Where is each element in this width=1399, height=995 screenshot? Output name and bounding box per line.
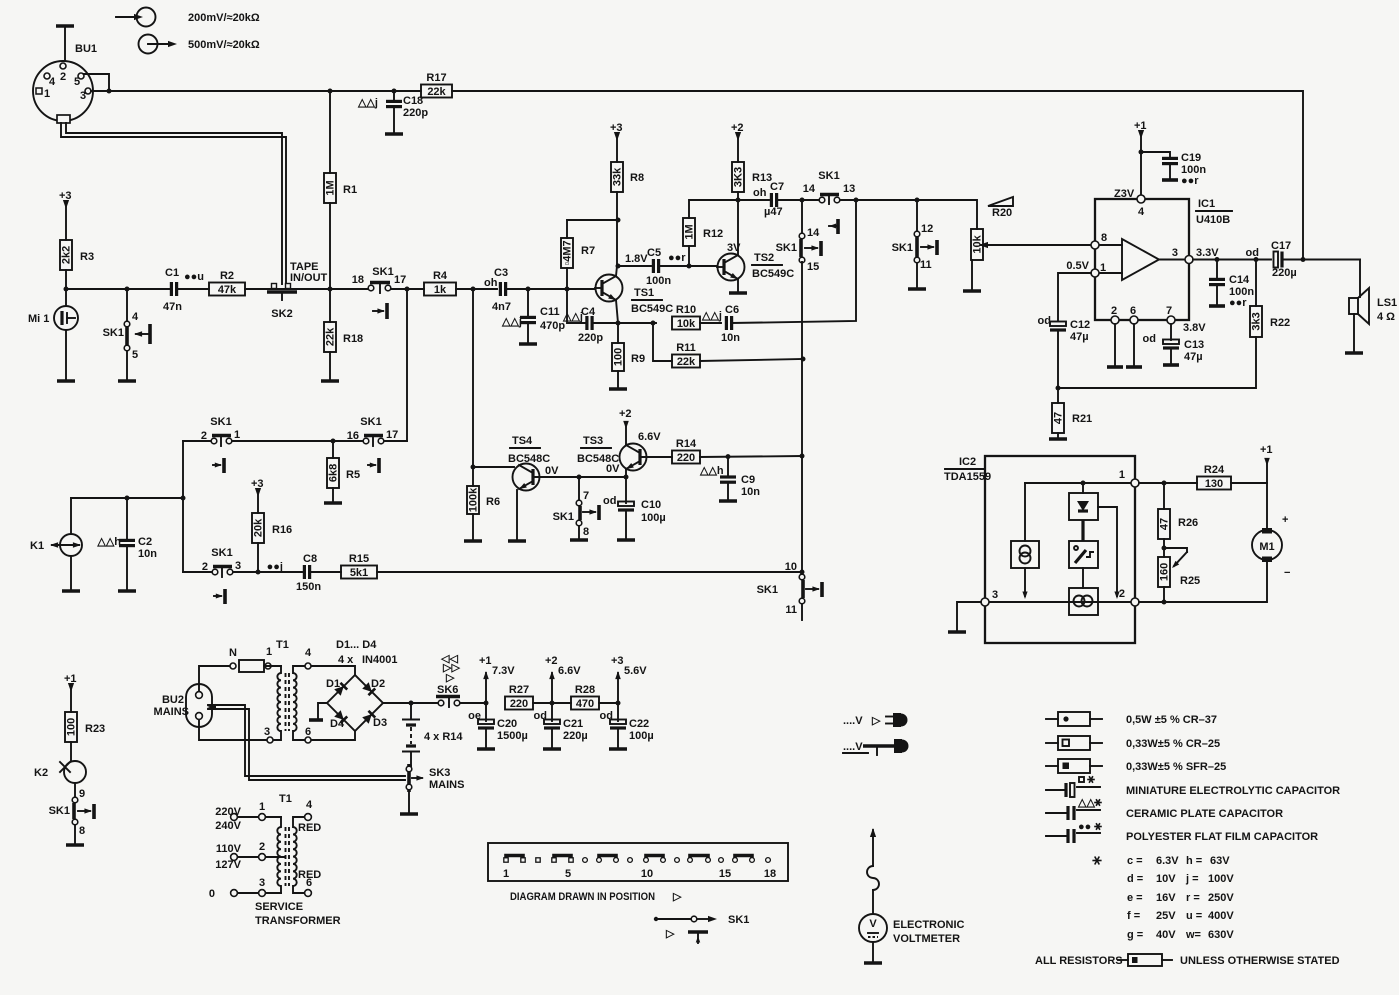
svg-text:220p: 220p [578, 332, 603, 344]
svg-text:17: 17 [386, 429, 398, 441]
resistor R1 [329, 91, 331, 173]
svg-text:220: 220 [510, 698, 528, 710]
switch SK3 MAINS [400, 764, 464, 814]
svg-text:C13: C13 [1184, 339, 1204, 351]
wire K1 row [71, 497, 183, 499]
svg-text:0: 0 [209, 888, 215, 900]
svg-text:R11: R11 [676, 342, 696, 354]
wire pin1 to R24 [1139, 482, 1197, 484]
wire SK1-2/3 row [183, 571, 212, 573]
svg-text:1k: 1k [434, 284, 447, 296]
wire BU1 pin5 jog [84, 74, 109, 91]
svg-text:●●: ●● [1078, 821, 1091, 833]
mains double line to SK3 [208, 705, 405, 776]
svg-text:R9: R9 [631, 353, 645, 365]
switch SK1 18-17 [352, 266, 407, 319]
svg-text:3: 3 [259, 877, 265, 889]
svg-text:C3: C3 [494, 267, 508, 279]
svg-text:14: 14 [807, 227, 820, 239]
svg-text:47µ: 47µ [1184, 351, 1203, 363]
svg-text:22k: 22k [325, 327, 337, 346]
svg-text:△△h: △△h [96, 536, 121, 548]
svg-text:4: 4 [1138, 206, 1145, 218]
svg-text:R20: R20 [992, 207, 1012, 219]
legend miniature electrolytic capacitor [1046, 776, 1340, 797]
svg-text:SK1: SK1 [892, 242, 913, 254]
svg-text:SK1: SK1 [553, 511, 574, 523]
svg-text:SK1: SK1 [103, 327, 124, 339]
svg-text:R28: R28 [575, 684, 595, 696]
svg-text:3.3V: 3.3V [1196, 247, 1219, 259]
svg-text:SK1: SK1 [728, 914, 749, 926]
svg-text:△△j: △△j [501, 316, 522, 328]
svg-text:LS1: LS1 [1377, 297, 1397, 309]
potentiometer R25 [1163, 539, 1165, 557]
resistor R27 [505, 697, 533, 710]
battery 4xR14 [402, 703, 463, 766]
svg-text:127V: 127V [215, 859, 241, 871]
svg-text:+2: +2 [545, 655, 558, 667]
svg-text:D4: D4 [330, 718, 345, 730]
svg-text:1.8V: 1.8V [625, 253, 648, 265]
svg-text:470: 470 [576, 698, 594, 710]
microphone Mi1 [28, 289, 78, 381]
wire to SK1 18-17 [330, 288, 368, 290]
transistor TS1 [595, 266, 673, 323]
speaker LS1 [1345, 260, 1397, 354]
svg-text:C2: C2 [138, 536, 152, 548]
svg-text:TS3: TS3 [583, 435, 603, 447]
svg-text:r =: r = [1186, 892, 1200, 904]
wire T1 pin6 to bridge [312, 731, 355, 740]
IC2 pin3 ground [957, 602, 981, 631]
svg-text:200mV/≈20kΩ: 200mV/≈20kΩ [188, 12, 260, 24]
svg-text:16V: 16V [1156, 892, 1176, 904]
svg-text:100: 100 [613, 348, 625, 366]
switch position box [488, 843, 788, 881]
IC2 pin 3 [981, 598, 989, 606]
svg-text:47µ: 47µ [1070, 331, 1089, 343]
svg-text:100V: 100V [1208, 873, 1234, 885]
svg-text:....V: ....V [843, 715, 863, 727]
svg-text:+2: +2 [619, 408, 632, 420]
svg-text:△△h: △△h [699, 465, 724, 477]
svg-text:+1: +1 [479, 655, 492, 667]
taper wedge symbol [988, 197, 1013, 206]
resistor R13 [732, 162, 744, 192]
svg-text:RED: RED [298, 822, 321, 834]
svg-text:0,33W±5 % CR–25: 0,33W±5 % CR–25 [1126, 738, 1220, 750]
svg-text:160: 160 [1159, 563, 1171, 581]
resistor R17 [421, 85, 452, 98]
svg-text:R16: R16 [272, 524, 292, 536]
wire top bus to right edge [452, 91, 1303, 260]
svg-text:5: 5 [132, 349, 138, 361]
svg-text:BC548C: BC548C [508, 453, 550, 465]
resistor R10 [672, 317, 700, 330]
svg-text:220µ: 220µ [563, 730, 588, 742]
svg-text:R4: R4 [433, 270, 448, 282]
svg-text:TS1: TS1 [634, 287, 654, 299]
resistor R6 [471, 465, 476, 470]
connector BU1 [33, 43, 97, 123]
resistor R3 [60, 240, 72, 270]
capacitor C7 [738, 199, 769, 201]
svg-text:IN/OUT: IN/OUT [290, 272, 328, 284]
svg-text:4: 4 [305, 647, 312, 659]
svg-text:1: 1 [266, 646, 272, 658]
svg-text:1: 1 [1119, 469, 1125, 481]
svg-text:1: 1 [44, 88, 50, 100]
svg-text:47k: 47k [218, 284, 237, 296]
svg-text:C5: C5 [647, 247, 661, 259]
svg-text:+1: +1 [1260, 444, 1273, 456]
svg-text:TRANSFORMER: TRANSFORMER [255, 915, 341, 927]
legend arrow 500mV [139, 35, 260, 54]
switch SK1 12-11 [892, 200, 937, 289]
svg-text:220p: 220p [403, 107, 428, 119]
svg-text:▷: ▷ [672, 891, 682, 903]
svg-text:c =: c = [1127, 855, 1143, 867]
resistor R26 [1163, 483, 1165, 509]
svg-text:SK1: SK1 [49, 805, 70, 817]
svg-text:6.6V: 6.6V [638, 431, 661, 443]
svg-text:11: 11 [785, 604, 797, 616]
svg-text:4n7: 4n7 [492, 301, 511, 313]
svg-text:SK1: SK1 [818, 170, 839, 182]
legend ceramic plate capacitor [1046, 797, 1283, 820]
motor M1 [1139, 483, 1290, 602]
svg-text:10n: 10n [721, 332, 740, 344]
wire T1 pin4 to bridge [312, 666, 355, 675]
svg-text:3: 3 [1172, 247, 1178, 259]
legend resistor 0.33W CR-25 [1046, 736, 1220, 750]
connector K1 [30, 498, 82, 591]
svg-text:13: 13 [843, 183, 855, 195]
svg-text:C18: C18 [403, 95, 423, 107]
svg-text:oh: oh [753, 187, 767, 199]
capacitor C18 [357, 91, 428, 134]
wire SK1-15 down long vertical [801, 262, 803, 572]
wire R7 top to TS1 collector line [567, 219, 618, 221]
svg-text:16: 16 [347, 430, 359, 442]
resistor R4 [424, 283, 456, 296]
svg-text:15: 15 [807, 261, 819, 273]
capacitor C14 [1216, 260, 1218, 280]
svg-text:2: 2 [1119, 588, 1125, 600]
switch SK1 2-1 [201, 416, 240, 473]
svg-text:4 x R14: 4 x R14 [424, 731, 463, 743]
svg-text:10n: 10n [741, 486, 760, 498]
svg-text:240V: 240V [215, 820, 241, 832]
svg-text:4: 4 [306, 799, 313, 811]
svg-text:0V: 0V [606, 463, 620, 475]
svg-text:▷: ▷ [665, 928, 675, 940]
svg-text:2: 2 [1111, 305, 1117, 317]
resistor R23 [65, 712, 77, 742]
svg-text:18: 18 [764, 868, 776, 880]
capacitor C19 [1141, 152, 1170, 157]
resistor R14 [672, 451, 700, 464]
svg-text:11: 11 [920, 259, 932, 271]
svg-text:R23: R23 [85, 723, 105, 735]
svg-text:DIAGRAM DRAWN IN POSITION: DIAGRAM DRAWN IN POSITION [510, 891, 655, 903]
switch SK1 2-3 [202, 547, 241, 604]
wire long row to SK1 10 [377, 571, 802, 573]
IC1 pin 8 [1091, 241, 1099, 249]
svg-text:12: 12 [921, 223, 933, 235]
svg-text:f =: f = [1127, 910, 1140, 922]
svg-text:SK2: SK2 [271, 308, 292, 320]
svg-text:RED: RED [298, 869, 321, 881]
svg-text:●●r: ●●r [668, 252, 686, 264]
transformer T1 (mains) [199, 639, 312, 743]
svg-text:C4: C4 [581, 306, 596, 318]
chassis bar above BU1 [56, 24, 74, 28]
svg-text:C14: C14 [1229, 274, 1250, 286]
svg-text:T1: T1 [279, 793, 292, 805]
IC2 TDA1559 box [944, 456, 1135, 643]
svg-text:u =: u = [1186, 910, 1202, 922]
wire top bus from BU1 pin3 [91, 90, 421, 92]
svg-text:R6: R6 [486, 496, 500, 508]
resistor R12 [688, 246, 690, 266]
switch SK1 14-15 (vertical) [776, 200, 821, 273]
svg-text:7: 7 [1166, 305, 1172, 317]
svg-text:BU2: BU2 [162, 694, 184, 706]
bridge minus ground [318, 703, 327, 719]
resistor R22 [1255, 260, 1257, 307]
svg-text:10n: 10n [138, 548, 157, 560]
svg-text:3V: 3V [727, 242, 741, 254]
resistor R9 [616, 321, 621, 326]
svg-text:0V: 0V [545, 465, 559, 477]
svg-text:3: 3 [992, 589, 998, 601]
svg-text:3.8V: 3.8V [1183, 322, 1206, 334]
svg-text:100n: 100n [646, 275, 671, 287]
switch SK1 14-13 (top) [803, 170, 856, 234]
wire feedback bottom [1058, 337, 1256, 388]
resistor R21 [1057, 388, 1059, 403]
svg-text:N: N [229, 647, 237, 659]
svg-text:6: 6 [1130, 305, 1136, 317]
svg-text:●●r: ●●r [1229, 297, 1247, 309]
svg-text:63V: 63V [1210, 855, 1230, 867]
resistor R8 [611, 162, 623, 192]
fuse N [230, 663, 236, 669]
svg-text:e =: e = [1127, 892, 1143, 904]
svg-text:100k: 100k [468, 487, 480, 512]
svg-text:3k3: 3k3 [1251, 312, 1263, 330]
svg-text:▷: ▷ [871, 715, 881, 727]
svg-text:●●u: ●●u [184, 271, 204, 283]
svg-text:●●j: ●●j [267, 561, 283, 573]
svg-text:C1: C1 [165, 267, 179, 279]
svg-text:R2: R2 [220, 270, 234, 282]
svg-text:8: 8 [583, 526, 589, 538]
legend arrow 200mV [116, 8, 260, 27]
svg-text:d =: d = [1127, 873, 1143, 885]
svg-text:10k: 10k [677, 318, 696, 330]
switch SK1 9-8 [49, 783, 94, 845]
IC1 pin 6 + ground [1130, 316, 1138, 324]
svg-text:22k: 22k [427, 86, 446, 98]
svg-text:SK3: SK3 [429, 767, 450, 779]
wire bridge plus to SK6 [383, 702, 438, 704]
svg-text:4: 4 [132, 311, 139, 323]
svg-text:BC549C: BC549C [631, 303, 673, 315]
IC1 pin 3 [1185, 256, 1193, 264]
svg-text:od: od [1246, 247, 1259, 259]
IC1 pin 2 + ground [1111, 316, 1119, 324]
svg-text:MINIATURE ELECTROLYTIC CAPAC: MINIATURE ELECTROLYTIC CAPACITOR [1126, 785, 1340, 797]
svg-text:SK1: SK1 [360, 416, 381, 428]
resistor R18 [329, 289, 331, 322]
wire SK1-17 to R4 [391, 288, 424, 290]
svg-text:0,5W ±5 % CR–37: 0,5W ±5 % CR–37 [1126, 714, 1217, 726]
svg-text:SK1: SK1 [776, 242, 797, 254]
svg-text:△△j: △△j [357, 97, 378, 109]
wire junction down to SK1 16-17 [406, 289, 408, 441]
svg-text:h =: h = [1186, 855, 1202, 867]
IC2 pin 1 [1131, 479, 1139, 487]
transistor TS2 [717, 200, 794, 293]
svg-text:9: 9 [79, 788, 85, 800]
svg-text:C11: C11 [540, 306, 560, 318]
svg-text:R24: R24 [1204, 464, 1225, 476]
svg-text:14: 14 [803, 183, 816, 195]
resistor R16 [252, 513, 264, 543]
switch SK6 [436, 653, 486, 707]
svg-text:K1: K1 [30, 540, 44, 552]
svg-text:6: 6 [305, 726, 311, 738]
tape head connector SK2 / TAPE IN-OUT [267, 261, 328, 320]
legend all resistors note [1035, 954, 1340, 967]
svg-text:8: 8 [79, 825, 85, 837]
svg-text:SK1: SK1 [210, 416, 231, 428]
svg-text:△△j: △△j [701, 310, 722, 322]
svg-text:470p: 470p [540, 320, 565, 332]
svg-text:47: 47 [1053, 412, 1065, 424]
op-amp IC1 U410B [1095, 198, 1232, 320]
IC2 zener box [1069, 483, 1098, 541]
rail +1 7.3V [484, 701, 489, 706]
capacitor C1 [170, 282, 173, 296]
wire SK1-17 up [384, 440, 407, 442]
potentiometer R20 [971, 229, 983, 260]
capacitor C2 [126, 498, 128, 539]
svg-text:ELECTRONIC: ELECTRONIC [893, 919, 965, 931]
svg-text:C12: C12 [1070, 319, 1090, 331]
svg-text:TDA1559: TDA1559 [944, 471, 991, 483]
svg-text:630V: 630V [1208, 929, 1234, 941]
svg-text:SK1: SK1 [372, 266, 393, 278]
switch SK1 10-11 [757, 561, 822, 620]
svg-text:5k1: 5k1 [350, 567, 368, 579]
svg-text:IC1: IC1 [1198, 198, 1215, 210]
svg-text:1M: 1M [684, 224, 696, 239]
IC2 pin 2 [1131, 598, 1139, 606]
svg-text:▷: ▷ [445, 672, 455, 684]
svg-text:6.6V: 6.6V [558, 665, 581, 677]
svg-text:VOLTMETER: VOLTMETER [893, 933, 960, 945]
svg-text:w=: w= [1185, 929, 1201, 941]
wire SK1-2/1 row [183, 440, 211, 442]
svg-text:....V: ....V [843, 741, 863, 753]
probe legend (ground) [843, 739, 909, 755]
svg-text:4 Ω: 4 Ω [1377, 311, 1395, 323]
svg-text:CERAMIC PLATE CAPACITOR: CERAMIC PLATE CAPACITOR [1126, 808, 1283, 820]
legend polyester flat film capacitor [1046, 821, 1318, 843]
IC2 motor-driver box [1069, 588, 1098, 615]
svg-text:C17: C17 [1271, 240, 1291, 252]
vertical bus x183 [182, 441, 184, 572]
svg-text:UNLESS OTHERWISE STATED: UNLESS OTHERWISE STATED [1180, 955, 1340, 967]
resistor R7 [566, 268, 568, 289]
svg-text:od: od [1038, 315, 1051, 327]
svg-text:M1: M1 [1259, 541, 1274, 553]
svg-text:220: 220 [677, 452, 695, 464]
svg-text:POLYESTER FLAT FILM CAPACIT: POLYESTER FLAT FILM CAPACITOR [1126, 831, 1318, 843]
legend resistor 0.5W CR-37 [1046, 712, 1217, 726]
capacitor C5 [618, 265, 651, 267]
svg-text:MAINS: MAINS [154, 706, 189, 718]
svg-text:1500µ: 1500µ [497, 730, 528, 742]
svg-text:4 x: 4 x [338, 654, 354, 666]
svg-text:Z3V: Z3V [1114, 188, 1135, 200]
svg-text:SERVICE: SERVICE [255, 901, 303, 913]
svg-text:130: 130 [1205, 478, 1223, 490]
svg-text:8: 8 [1101, 232, 1107, 244]
svg-text:2k2: 2k2 [61, 246, 73, 264]
svg-text:j =: j = [1185, 873, 1199, 885]
svg-text:Mi 1: Mi 1 [28, 313, 49, 325]
supply +1 (motor) [1266, 463, 1268, 483]
svg-text:ALL RESISTORS: ALL RESISTORS [1035, 955, 1123, 967]
IC2 switch box [1069, 541, 1098, 588]
svg-text:IC2: IC2 [959, 456, 976, 468]
svg-text:0,33W±5 % SFR–25: 0,33W±5 % SFR–25 [1126, 761, 1226, 773]
wire battery to SK3 [409, 765, 411, 767]
svg-text:5.6V: 5.6V [624, 665, 647, 677]
SK1 legend symbol [654, 914, 750, 926]
svg-text:1: 1 [503, 868, 509, 880]
resistor R11 [653, 323, 672, 361]
svg-text:R17: R17 [426, 72, 446, 84]
svg-text:SK1: SK1 [757, 584, 778, 596]
resistor R28 [571, 697, 599, 710]
svg-text:T1: T1 [276, 639, 289, 651]
svg-text:TS4: TS4 [512, 435, 533, 447]
svg-text:0.5V: 0.5V [1066, 260, 1089, 272]
legend voltage codes [1092, 860, 1101, 862]
svg-text:D1: D1 [326, 678, 340, 690]
resistor R2 [209, 283, 245, 296]
service transformer T1 [209, 793, 341, 927]
svg-text:od: od [1143, 333, 1156, 345]
svg-text:C6: C6 [725, 304, 739, 316]
wire main signal row left [66, 288, 171, 290]
svg-text:K2: K2 [34, 767, 48, 779]
svg-text:IN4001: IN4001 [362, 654, 397, 666]
svg-text:R15: R15 [349, 553, 369, 565]
svg-text:47: 47 [1159, 518, 1171, 530]
svg-text:500mV/≈20kΩ: 500mV/≈20kΩ [188, 39, 260, 51]
wire BU2 to fuse [199, 666, 229, 691]
electronic voltmeter [859, 828, 965, 963]
svg-text:R22: R22 [1270, 317, 1290, 329]
svg-text:3: 3 [264, 726, 270, 738]
